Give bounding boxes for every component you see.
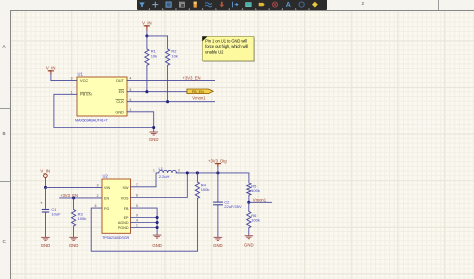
svg-text:GND: GND [152, 243, 162, 248]
U1 pin name CLK (active low) [116, 99, 125, 104]
svg-text:GND: GND [41, 243, 51, 248]
U2 part number TPS62160DSGR [102, 236, 130, 240]
node junction R2 bottom on Vmon1 net [166, 100, 169, 103]
toolbar icon filter funnel [139, 2, 145, 7]
U2 pin number 6 [95, 204, 97, 208]
U1 pin number 4 [130, 77, 132, 81]
svg-text:Vmon1: Vmon1 [192, 95, 206, 100]
svg-text:GND: GND [244, 243, 254, 248]
wire V_IN stem to junction [146, 31, 148, 36]
toolbar icon teal sheet [246, 3, 252, 7]
svg-text:22uF/35V: 22uF/35V [224, 204, 242, 209]
svg-text:L1: L1 [159, 166, 164, 171]
svg-text:U1: U1 [78, 72, 84, 77]
wire +3V3_Dig stem to rail [217, 167, 219, 173]
svg-text:5: 5 [130, 88, 132, 92]
sheet zone letter A [3, 45, 6, 50]
wire U2 VOS pin 8 to rail [131, 173, 188, 198]
svg-text:+: + [40, 201, 43, 206]
node junction C2 on rail [216, 171, 219, 174]
svg-text:5: 5 [136, 204, 138, 208]
U1 pin name PB EN (active low) [80, 92, 92, 97]
svg-text:EP: EP [124, 216, 129, 220]
wire V_IN to U1 VCC pin 3 [51, 75, 77, 81]
svg-text:2.2uH: 2.2uH [159, 174, 170, 179]
toolbar icon wire mode [233, 2, 238, 8]
net label Vmon1 (bottom) [253, 198, 267, 203]
node junction R4 on rail [196, 171, 199, 174]
node junction R1/R2 top [145, 34, 148, 37]
svg-text:1: 1 [136, 224, 138, 228]
U1 pin number 5 [130, 88, 132, 92]
svg-text:+3V3_EN: +3V3_EN [183, 75, 201, 80]
sheet zone number 2 (top margin) [362, 2, 365, 7]
U1 pin name VCC [80, 78, 88, 83]
svg-text:Vmon1: Vmon1 [253, 198, 267, 203]
toolbar icon crosshair [152, 2, 158, 8]
svg-text:GND: GND [115, 109, 124, 114]
svg-text:enable U2: enable U2 [205, 49, 224, 54]
U2 pin number 5 [136, 204, 138, 208]
U1 pin number 3 [71, 77, 73, 81]
svg-text:V_IN: V_IN [40, 169, 50, 174]
svg-text:+3V3_EN: +3V3_EN [60, 193, 78, 198]
sheet zone divider B/C [0, 181, 10, 182]
power port +3V3_Dig [208, 158, 227, 167]
sheet zone divider top [438, 0, 439, 10]
svg-text:4: 4 [136, 219, 138, 223]
svg-text:OUT: OUT [116, 78, 125, 83]
svg-text:PG: PG [104, 207, 109, 211]
svg-text:6: 6 [95, 204, 97, 208]
sheet zone letter C [3, 240, 6, 245]
U1 pin number 1 [71, 90, 73, 94]
toolbar icon arc [299, 2, 304, 7]
note text box: Pin 1 on U1 to GND [202, 36, 255, 61]
toolbar icon diamond [312, 2, 318, 8]
svg-text:2: 2 [130, 108, 132, 112]
wire V_IN to U2 VIN pin 3 [46, 186, 103, 188]
toolbar icon text A [286, 2, 291, 9]
U1 part number MAX6034BAUT41+T [75, 119, 108, 123]
node junction GND loop meets pin2 [152, 126, 155, 129]
L1 pin number 2 [178, 169, 180, 173]
svg-text:VOS: VOS [121, 196, 129, 200]
svg-text:V_IN: V_IN [46, 65, 56, 70]
node junction V_IN / C1 [44, 186, 47, 189]
svg-text:3: 3 [97, 183, 99, 187]
svg-text:PB_EN: PB_EN [192, 90, 204, 94]
inductor L1 2.2uH [156, 166, 176, 179]
U2 pin number 8 [136, 193, 138, 197]
capacitor C1 10uF [40, 187, 61, 237]
wire U1 CLK pin6 net Vmon1 [127, 101, 215, 103]
svg-text:A: A [286, 2, 291, 9]
op U1 body (supervisor IC) [77, 72, 127, 116]
resistor R2 10k [166, 36, 178, 102]
U2 pin number 2 [97, 194, 99, 198]
svg-text:10k: 10k [171, 54, 177, 59]
ground GND (R6) [244, 236, 254, 248]
ground GND (U1) [149, 132, 159, 142]
capacitor C2 22uF/35V [213, 173, 242, 237]
net label +3V3_EN (top) [183, 75, 201, 80]
U1 pin number 2 [130, 108, 132, 112]
wire U2 PG pin 6 loop to R4 bottom [91, 208, 197, 251]
ground GND (U2 analog) [152, 235, 162, 248]
toolbar icon paste [179, 2, 184, 7]
resistor R3 100k [72, 198, 87, 237]
svg-text:PGND: PGND [118, 226, 129, 230]
node junction R1 bottom on EN net [145, 90, 148, 93]
svg-text:6: 6 [130, 98, 132, 102]
floating toolbar [137, 0, 327, 10]
U1 pin name GND [115, 109, 124, 114]
svg-text:SW: SW [123, 186, 129, 190]
wire U1 EN pin5 to port [127, 91, 187, 93]
svg-text:100k: 100k [78, 216, 87, 221]
U2 pin number 4 [136, 219, 138, 223]
svg-text:100k: 100k [201, 187, 210, 192]
U2 pin name FB [124, 207, 129, 211]
svg-text:force out high, which will: force out high, which will [205, 44, 248, 49]
L1 pin number 1 [153, 168, 155, 172]
wire U2 EP pin 9 stub [131, 217, 158, 219]
svg-text:VIN: VIN [104, 186, 110, 190]
ground GND (C1) [41, 237, 51, 248]
svg-text:1: 1 [153, 168, 155, 172]
wire U2 FB pin 5 down to GND tie [131, 208, 158, 235]
svg-text:9: 9 [136, 214, 138, 218]
U2 pin number 3 [97, 183, 99, 187]
svg-text:100k: 100k [251, 218, 260, 223]
node junction AGND tie [156, 221, 159, 224]
U2 pin name PGND [118, 226, 129, 230]
toolbar icon rectangle [166, 2, 171, 7]
power port V_IN (left of U1) [46, 65, 56, 74]
sheet zone letter B [3, 132, 6, 137]
wire U2 PGND pin 1 stub [131, 227, 158, 229]
svg-text:GND: GND [69, 243, 79, 248]
svg-text:2: 2 [97, 194, 99, 198]
wire U2 SW pin 7 up to L1 [131, 173, 157, 187]
node junction R3 top [72, 196, 75, 199]
wire V_IN circle to junction [44, 178, 46, 188]
toolbar icon red down arrow [219, 2, 224, 8]
U2 pin name AGND [118, 221, 129, 225]
svg-text:FB: FB [124, 207, 129, 211]
svg-text:100k: 100k [251, 188, 260, 193]
wire junction to R2 top [147, 35, 168, 37]
svg-text:EN: EN [104, 196, 109, 200]
svg-text:TPS62160DSGR: TPS62160DSGR [102, 236, 130, 240]
svg-text:VCC: VCC [80, 78, 88, 83]
resistor R5 100k [247, 183, 260, 202]
U2 pin name VIN [104, 186, 110, 190]
svg-text:+3V3_Dig: +3V3_Dig [208, 158, 227, 163]
svg-text:Pin 1 on U1 to GND will: Pin 1 on U1 to GND will [205, 39, 247, 44]
svg-text:4: 4 [130, 77, 132, 81]
wire U1 OUT pin4 net +3V3_EN [127, 80, 215, 82]
U1 pin name OUT [116, 78, 125, 83]
node junction VOS on rail [186, 171, 189, 174]
wire U1 GND pin2 down [127, 112, 154, 132]
toolbar icon port [259, 3, 265, 6]
node junction EP tie [156, 216, 159, 219]
svg-text:3: 3 [71, 77, 73, 81]
port PB_EN [187, 89, 213, 94]
U2 pin name SW [123, 186, 129, 190]
U2 pin name EN [104, 196, 109, 200]
svg-text:10k: 10k [151, 54, 157, 59]
svg-text:2: 2 [178, 169, 180, 173]
svg-text:AGND: AGND [118, 221, 129, 225]
U2 pin number 1 [136, 224, 138, 228]
U2 pin number 9 [136, 214, 138, 218]
toolbar icon yellow tag [194, 2, 197, 8]
regulator U2 body [102, 174, 131, 234]
power port V_IN (bottom, circle style) [40, 169, 50, 178]
U2 pin name PG [104, 207, 109, 211]
power port V_IN (top, feeds R1/R2) [142, 20, 152, 30]
wire +3V3_EN to U2 EN pin 2 [60, 197, 102, 199]
svg-text:U2: U2 [103, 174, 109, 179]
resistor R1 10k [145, 36, 157, 92]
net label Vmon1 (top) [192, 95, 206, 100]
U2 pin name EP [124, 216, 129, 220]
wire Vmon1 stub [249, 201, 272, 203]
svg-text:V_IN: V_IN [142, 20, 152, 25]
U1 pin name EN (active low) [119, 89, 125, 94]
net label +3V3_EN (bottom) [60, 193, 78, 198]
svg-text:7: 7 [136, 183, 138, 187]
resistor R4 100k (PG pull-up) [195, 173, 209, 251]
svg-text:10uF: 10uF [51, 212, 61, 217]
resistor R6 100k [247, 202, 260, 235]
U1 pin number 6 [130, 98, 132, 102]
svg-text:GND: GND [149, 137, 159, 142]
toolbar notches [149, 8, 310, 9]
svg-text:MAX6034BAUT41+T: MAX6034BAUT41+T [75, 119, 108, 123]
ground GND (R3) [69, 237, 79, 248]
node junction Vmon1 divider tap [247, 201, 250, 204]
wire U2 AGND pin 4 stub [131, 222, 158, 224]
wire U1 pin1 to GND loop [54, 94, 154, 127]
ground GND (C2) [213, 237, 223, 248]
node junction PGND tie [156, 226, 159, 229]
svg-text:8: 8 [136, 193, 138, 197]
U2 pin number 7 [136, 183, 138, 187]
svg-text:1: 1 [71, 90, 73, 94]
U2 pin name VOS [121, 196, 129, 200]
svg-text:GND: GND [213, 243, 223, 248]
toolbar icon no-ERC [272, 2, 277, 7]
toolbar icon waves [205, 3, 212, 7]
wire L1 output rail +3V3_Dig [176, 173, 249, 183]
sheet zone divider A/B [0, 108, 10, 109]
